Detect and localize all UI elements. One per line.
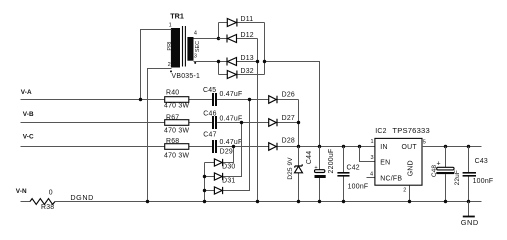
junction C43 at OUT rail	[467, 145, 470, 148]
junction pin1/V-A	[139, 98, 142, 101]
junction D25 at DGND	[297, 200, 300, 203]
junction C42 at rail	[342, 145, 345, 148]
junction collector at positive rail	[297, 145, 300, 148]
junction bridge negative at DGND	[256, 200, 259, 203]
wire TR1 pin 2 to DGND	[148, 69, 172, 202]
secondary winding	[187, 37, 193, 61]
primary phase dot	[170, 70, 172, 72]
junction C43 at DGND	[467, 200, 470, 203]
diode D12	[219, 32, 258, 43]
svg-text:D26: D26	[282, 91, 295, 98]
wire V-B rail	[21, 122, 299, 124]
wire bridge negative to DGND	[257, 39, 259, 202]
svg-text:1: 1	[169, 22, 172, 28]
junction C42 at DGND	[342, 200, 345, 203]
svg-text:C47: C47	[203, 132, 216, 139]
svg-text:470 3W: 470 3W	[164, 152, 189, 159]
svg-text:GND: GND	[461, 218, 479, 227]
zener diode D25	[287, 147, 303, 202]
svg-text:2200uF: 2200uF	[328, 149, 335, 174]
diode D11	[219, 16, 265, 27]
transformer TR1	[167, 11, 201, 80]
primary winding	[171, 28, 180, 68]
svg-text:C48: C48	[431, 165, 438, 178]
svg-text:1: 1	[371, 139, 374, 145]
svg-text:V-B: V-B	[23, 111, 34, 118]
svg-text:TR1: TR1	[170, 11, 184, 20]
diode D13	[227, 55, 258, 66]
wire DGND bottom rail	[55, 201, 482, 203]
junction pin3 node	[217, 60, 220, 63]
svg-text:5: 5	[423, 140, 426, 146]
diode D29	[205, 147, 234, 167]
svg-text:D29: D29	[220, 149, 233, 156]
capacitor C45	[203, 87, 242, 106]
svg-text:D32: D32	[241, 68, 254, 75]
svg-text:4: 4	[370, 171, 373, 177]
svg-text:IC2: IC2	[375, 128, 386, 135]
svg-text:2: 2	[168, 62, 171, 68]
junction C44 at DGND	[318, 200, 321, 203]
resistor R68	[164, 138, 189, 159]
svg-text:3: 3	[371, 155, 374, 161]
junction D31/V-A	[248, 98, 251, 101]
svg-text:D13: D13	[241, 55, 254, 62]
junction pin2/DGND	[146, 200, 149, 203]
svg-text:0.47uF: 0.47uF	[220, 115, 243, 122]
svg-text:C42: C42	[347, 165, 360, 172]
wire EN tie to IN	[360, 147, 375, 162]
diode D28	[269, 138, 295, 151]
svg-text:0: 0	[49, 190, 53, 197]
core	[183, 26, 186, 67]
svg-text:D28: D28	[282, 138, 295, 145]
junction C48 at OUT rail	[444, 145, 447, 148]
wire secondary pin 3	[194, 61, 228, 63]
svg-text:D31: D31	[222, 178, 235, 185]
svg-text:C44: C44	[306, 151, 313, 164]
wire TR1 pin 1 to V-A	[141, 30, 172, 100]
svg-text:2: 2	[403, 188, 406, 194]
wire bridge left connector bottom	[218, 62, 220, 75]
svg-text:IN: IN	[380, 144, 387, 151]
svg-text:470 3W: 470 3W	[164, 128, 189, 135]
svg-text:SEC: SEC	[195, 41, 201, 52]
wire GND pin stub	[409, 185, 411, 201]
diode D31	[205, 100, 250, 195]
capacitor C42	[337, 147, 368, 202]
ground	[461, 202, 479, 228]
svg-text:D12: D12	[241, 32, 254, 39]
svg-text:V-C: V-C	[23, 133, 34, 140]
svg-text:C43: C43	[475, 158, 488, 165]
svg-text:R38: R38	[41, 204, 54, 211]
resistor R38	[30, 190, 55, 212]
svg-text:100nF: 100nF	[473, 178, 494, 185]
svg-text:470 3W: 470 3W	[164, 103, 189, 110]
svg-text:DGND: DGND	[70, 193, 94, 202]
svg-text:NC/FB: NC/FB	[380, 176, 402, 183]
capacitor C43	[463, 147, 494, 202]
wire OUT rail	[422, 146, 482, 148]
svg-text:22uF: 22uF	[454, 170, 461, 185]
svg-text:TPS76333: TPS76333	[392, 126, 430, 135]
wire bridge left connector top	[218, 23, 220, 39]
junction IC GND at DGND	[408, 200, 411, 203]
svg-text:3: 3	[194, 53, 197, 59]
wire secondary pin 4	[194, 38, 228, 40]
wire V-N lead-in	[21, 201, 31, 203]
junction EN tie at rail	[358, 145, 361, 148]
svg-text:D30: D30	[222, 163, 235, 170]
junction pin4 node	[217, 37, 220, 40]
junction D29/V-C	[232, 145, 235, 148]
svg-text:100nF: 100nF	[348, 183, 369, 190]
wire bridge positive	[265, 23, 320, 147]
resistor R40	[164, 89, 189, 109]
junction D31 anode	[203, 189, 206, 192]
svg-text:0.47uF: 0.47uF	[220, 139, 243, 146]
capacitor C46	[203, 111, 242, 129]
resistor R67	[164, 114, 189, 134]
wire V-A rail	[21, 99, 299, 101]
junction D12/D13 anodes	[256, 60, 259, 63]
capacitor C47	[203, 132, 242, 154]
junction C48 at DGND	[444, 200, 447, 203]
svg-text:C46: C46	[203, 111, 216, 118]
svg-text:C45: C45	[203, 87, 216, 94]
svg-text:0.47uF: 0.47uF	[220, 91, 243, 98]
svg-text:PRI: PRI	[167, 41, 173, 51]
wire clamp diode common anode	[204, 163, 206, 202]
wire V-C rail to IC IN	[21, 146, 375, 148]
junction bridge positive at rail	[318, 145, 321, 148]
diode D30	[205, 123, 242, 181]
svg-text:OUT: OUT	[402, 144, 418, 151]
diode D27	[269, 115, 295, 127]
secondary phase dot	[194, 62, 196, 64]
junction D30 anode	[203, 175, 206, 178]
svg-text:4: 4	[194, 31, 197, 37]
svg-text:VB035-1: VB035-1	[172, 73, 201, 80]
svg-text:D25 9V: D25 9V	[287, 157, 294, 180]
svg-text:V-A: V-A	[21, 89, 32, 96]
svg-text:D11: D11	[241, 16, 254, 23]
capacitor C48	[431, 147, 461, 202]
junction D11/D32 cathodes	[263, 60, 266, 63]
svg-text:D27: D27	[282, 115, 295, 122]
svg-text:EN: EN	[380, 159, 390, 166]
junction clamp anodes at DGND	[203, 200, 206, 203]
svg-text:R40: R40	[166, 89, 179, 96]
svg-text:V-N: V-N	[16, 188, 27, 195]
diode D26	[269, 91, 295, 103]
junction D27 output	[297, 121, 300, 124]
junction D30/V-B	[240, 121, 243, 124]
wire NC/FB stub	[367, 177, 375, 179]
diode D32	[219, 68, 265, 78]
regulator IC2 TPS76333	[370, 126, 430, 194]
capacitor C44	[306, 147, 335, 202]
svg-text:GND: GND	[408, 160, 415, 176]
wire D26 output	[298, 100, 300, 147]
